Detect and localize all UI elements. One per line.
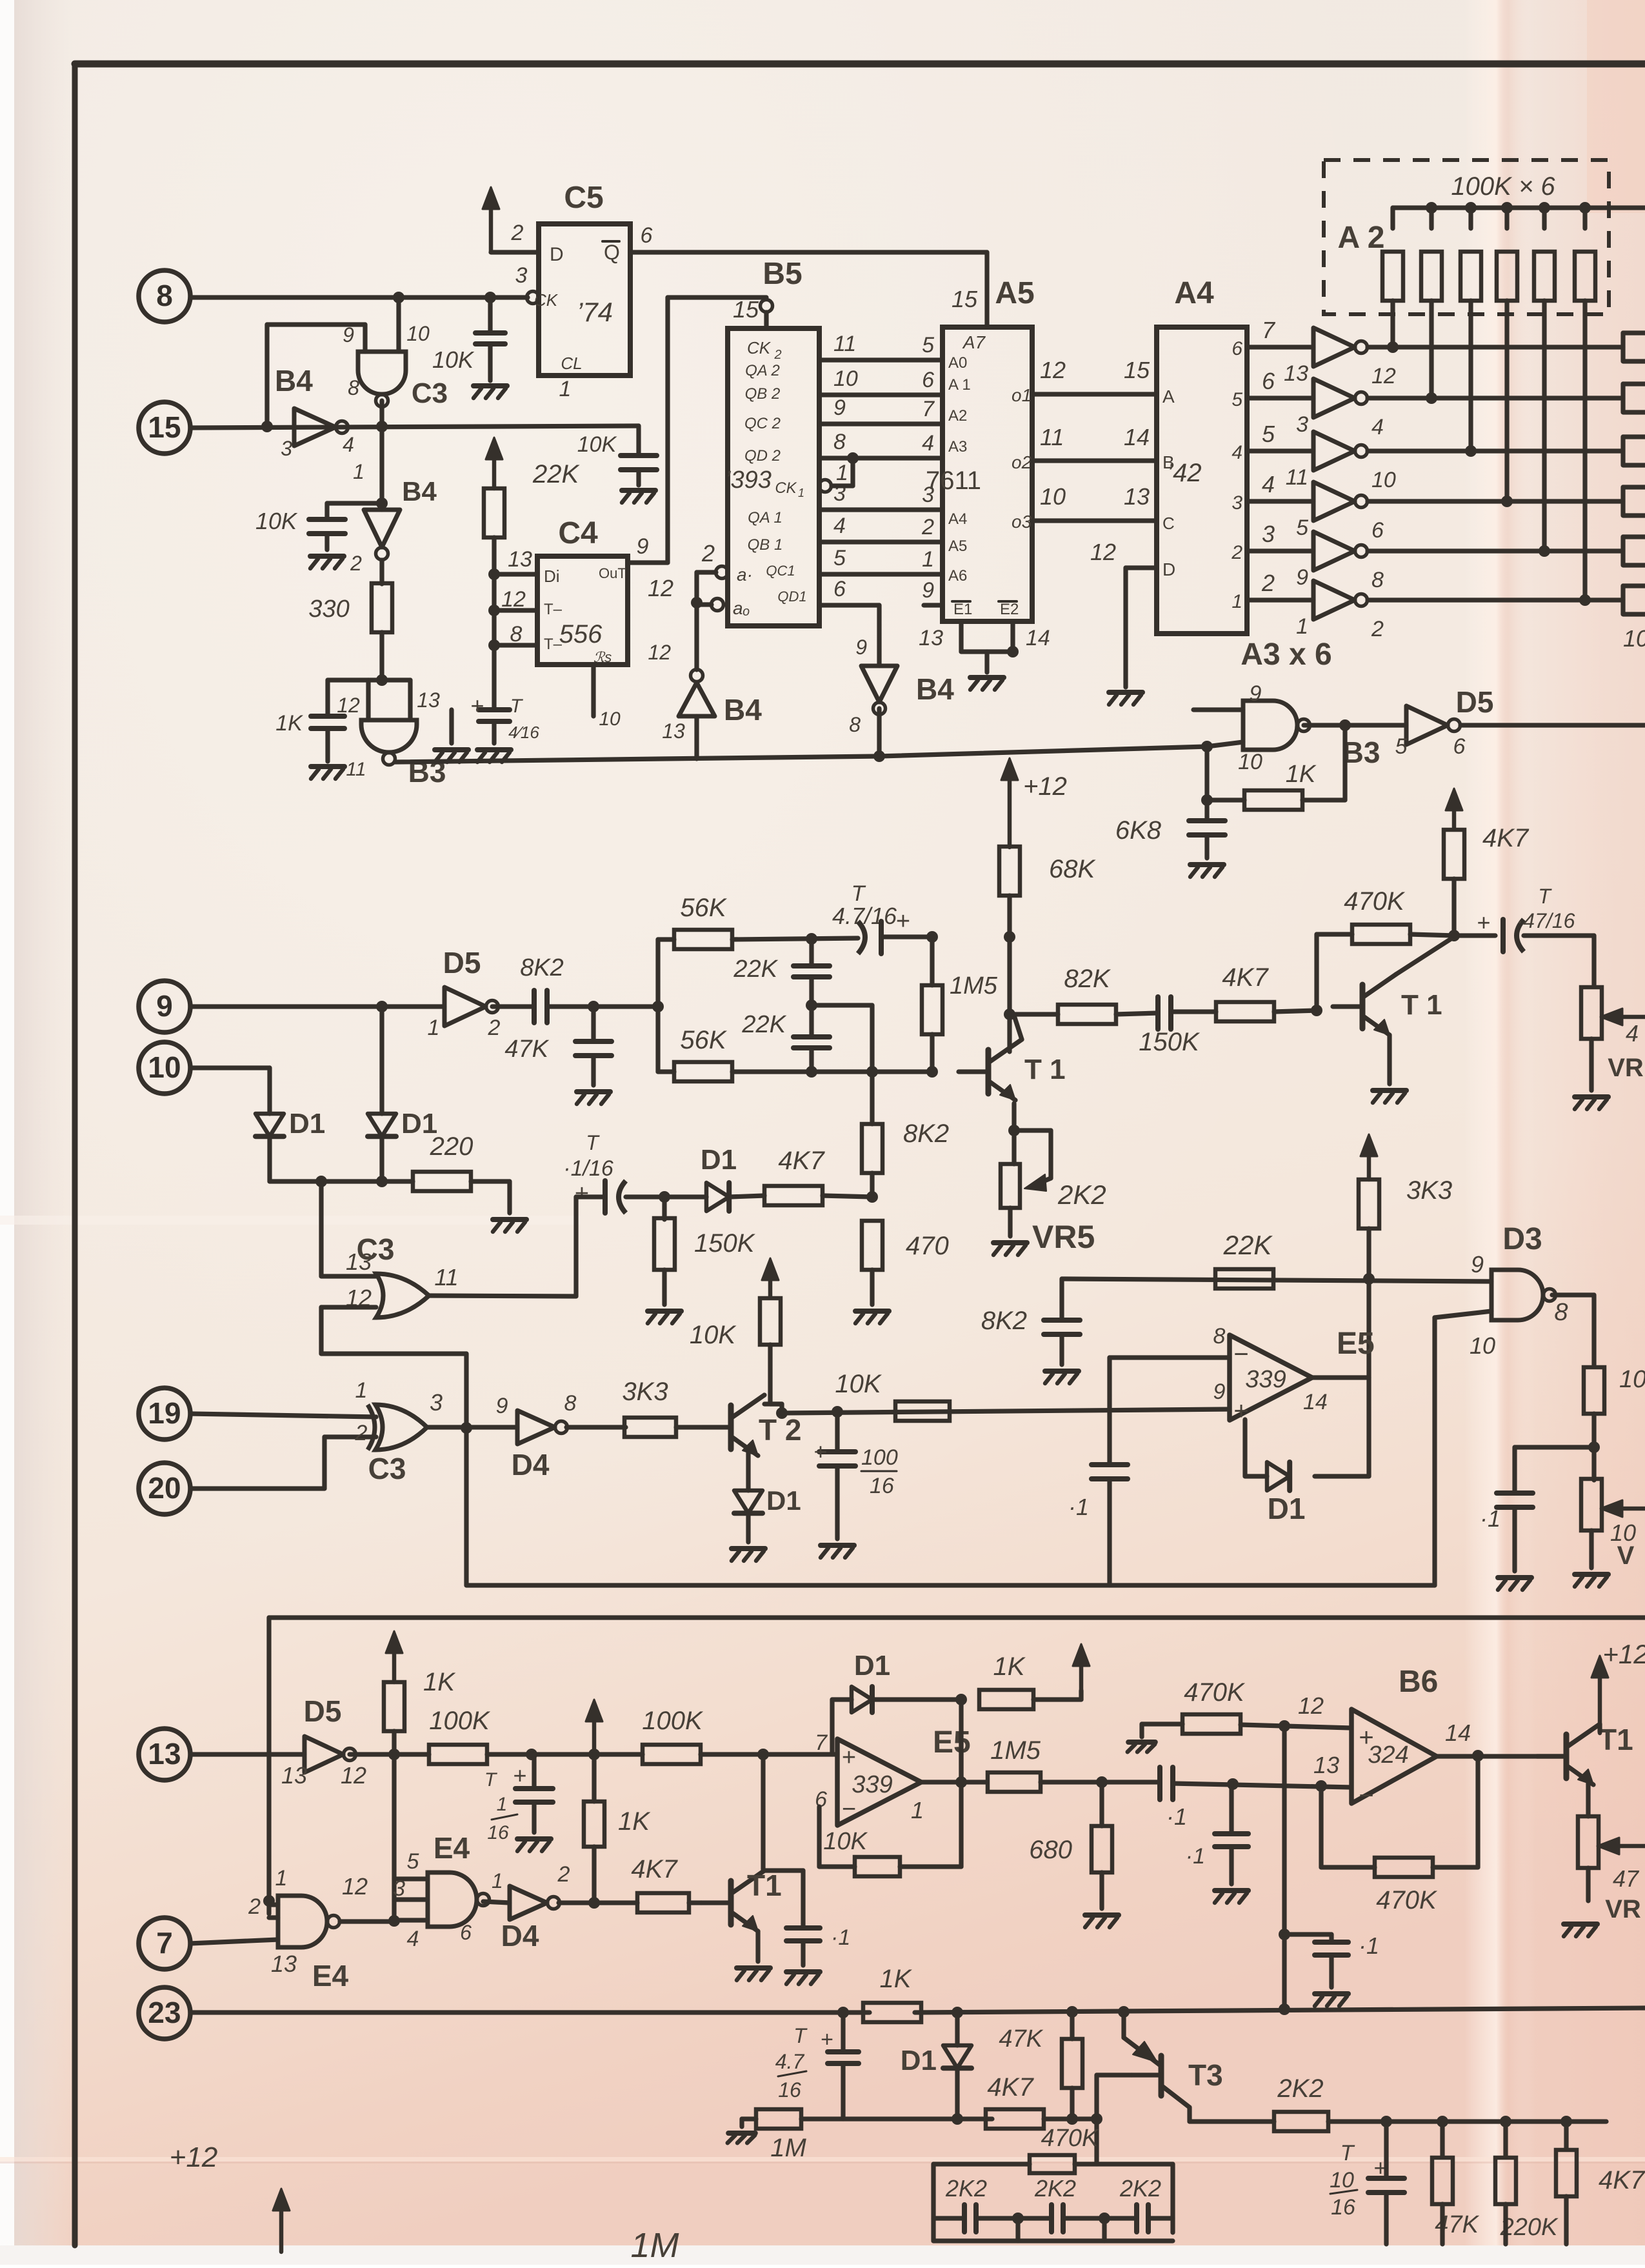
svg-text:9: 9	[343, 323, 354, 346]
NAND gate E4 first (pins 1,2,13,12)	[263, 1895, 275, 1907]
terminal 7	[139, 1918, 190, 1969]
ground stub C4 TR	[449, 710, 454, 743]
inverter D5 bottom (pins 13,12)	[304, 1736, 343, 1772]
inverter A3-5	[1313, 532, 1355, 570]
wire B5 QD1 pin 6 to inverter B4	[819, 603, 879, 607]
svg-text:11: 11	[1040, 424, 1064, 450]
wire E5 output to 22K node	[1312, 1375, 1369, 1380]
svg-text:5: 5	[922, 333, 934, 357]
op-amp B6 (324)	[1351, 1709, 1437, 1803]
wire T1 right emitter to ground	[1387, 1035, 1391, 1084]
svg-text:E2: E2	[1000, 601, 1019, 618]
svg-text:1M5: 1M5	[990, 1736, 1041, 1765]
svg-text:D5: D5	[1456, 685, 1494, 719]
terminal 13	[139, 1729, 190, 1780]
svg-text:470K: 470K	[1376, 1886, 1438, 1914]
diode D1 horizontal	[706, 1183, 729, 1211]
svg-text:D5: D5	[304, 1694, 342, 1728]
wire net-10 to D1	[190, 1065, 270, 1070]
svg-text:2K2: 2K2	[1057, 1179, 1106, 1210]
svg-text:8: 8	[849, 713, 861, 736]
svg-text:QB 1: QB 1	[748, 536, 783, 554]
wire D5 output to right edge	[1461, 723, 1645, 727]
svg-text:D4: D4	[501, 1919, 539, 1952]
resistor 3K3	[624, 1418, 676, 1437]
resistor 100K second	[643, 1745, 701, 1764]
svg-text:3: 3	[281, 437, 292, 460]
svg-text:A 1: A 1	[948, 376, 971, 394]
wire T3 emitter to 2K2 row	[1187, 2107, 1191, 2122]
svg-text:B4: B4	[402, 476, 437, 507]
resistor 3K3 vertical	[1359, 1179, 1379, 1229]
svg-text:10K: 10K	[1619, 1366, 1645, 1393]
svg-text:·1: ·1	[1166, 1803, 1187, 1830]
svg-text:E4: E4	[434, 1831, 470, 1865]
svg-text:8: 8	[156, 279, 173, 312]
svg-text:T3: T3	[1188, 2058, 1223, 2092]
wire from row 1831 down to gate C3	[319, 1181, 323, 1276]
bottom section top wire	[269, 1615, 1645, 1620]
svg-text:3K3: 3K3	[1406, 1176, 1452, 1205]
power arrow +12 above 4K7	[1452, 800, 1457, 828]
capacitor 10K at C5 CK node	[488, 297, 492, 333]
svg-text:470K: 470K	[1041, 2125, 1099, 2152]
svg-text:Q: Q	[604, 241, 620, 264]
power arrow above 10K vertical	[768, 1270, 773, 1297]
svg-text:15: 15	[952, 286, 978, 312]
long wire bottom of section 2	[466, 1583, 1435, 1587]
wire C3 upper output	[429, 1296, 576, 1296]
svg-text:VR5: VR5	[1032, 1219, 1095, 1255]
svg-text:3: 3	[1262, 521, 1275, 547]
svg-text:82K: 82K	[1064, 965, 1111, 993]
capacitor .1 at D3 divider	[1515, 1445, 1594, 1449]
svg-text:6: 6	[922, 368, 934, 392]
power arrow +12 above 68K	[1008, 770, 1012, 847]
wire 22K to C4 pins	[492, 537, 496, 710]
wire T1 bottom collector up	[763, 1869, 764, 1871]
svg-text:10K: 10K	[690, 1321, 737, 1349]
svg-text:·47/16: ·47/16	[1517, 909, 1575, 932]
svg-text:3: 3	[430, 1389, 443, 1416]
svg-text:1K: 1K	[275, 711, 303, 736]
svg-text:8: 8	[564, 1391, 577, 1416]
ground under A5	[970, 675, 1004, 680]
svg-text:10K: 10K	[835, 1370, 882, 1398]
svg-text:C5: C5	[564, 181, 603, 215]
capacitor T .47/16 polarized	[1454, 933, 1495, 938]
svg-text:A7: A7	[962, 332, 986, 352]
capacitor 6K8 at B3 input	[1204, 747, 1209, 821]
svg-text:A 2: A 2	[1338, 221, 1385, 255]
svg-text:5: 5	[1231, 389, 1242, 410]
svg-text:1: 1	[836, 461, 848, 485]
svg-text:C3: C3	[412, 377, 448, 409]
resistor 10K vertical	[760, 1298, 781, 1345]
svg-text:4K7: 4K7	[1599, 2166, 1645, 2194]
terminal 15	[139, 402, 190, 454]
svg-text:20: 20	[148, 1471, 181, 1505]
svg-text:2: 2	[921, 515, 934, 539]
resistor 100K first	[429, 1745, 487, 1764]
svg-text:·1: ·1	[1480, 1505, 1500, 1532]
svg-text:47: 47	[1613, 1865, 1640, 1892]
svg-text:14: 14	[1124, 424, 1150, 450]
resistor 220K bottom vertical	[1503, 2122, 1508, 2156]
svg-text:o3: o3	[1012, 512, 1032, 532]
capacitor 22K upper in twin-T	[806, 933, 817, 945]
resistor 1M5	[930, 937, 934, 985]
capacitor 10K at inverter B4 input	[327, 501, 382, 505]
inverter B4 mid (pins 12,13) pointing up	[694, 603, 699, 670]
ground under C4 bus cap	[477, 747, 511, 752]
ground under T1 bottom	[737, 1965, 770, 1971]
ground stub 1M	[739, 2119, 744, 2127]
twin-T filter left node	[655, 939, 660, 1072]
svg-text:5: 5	[1262, 421, 1275, 447]
svg-text:o1: o1	[1012, 385, 1032, 405]
svg-text:13: 13	[1124, 483, 1150, 510]
svg-text:12: 12	[1371, 364, 1396, 388]
svg-text:·1: ·1	[831, 1925, 850, 1950]
edge connector stub row 2	[1623, 381, 1645, 386]
ground under 100/16	[821, 1543, 854, 1548]
wire C4 OUT pin 9 up to B5 CK2	[628, 560, 668, 565]
capacitor 8K2 series	[492, 1004, 534, 1009]
wire C4 Rs pin down	[591, 665, 595, 716]
svg-text:T: T	[793, 2024, 808, 2047]
resistor 47K vertical	[1070, 2012, 1074, 2039]
svg-text:680: 680	[1029, 1836, 1072, 1864]
svg-text:+12: +12	[1023, 772, 1067, 801]
svg-text:+: +	[842, 1744, 856, 1771]
wire T1 collector to 82K row	[1014, 1016, 1022, 1039]
resistor 8K2 on T1 base divider	[866, 1066, 878, 1078]
inverter A3-1	[1313, 328, 1355, 366]
svg-text:E4: E4	[312, 1959, 349, 1992]
svg-text:6: 6	[641, 223, 653, 248]
svg-text:339: 339	[852, 1771, 892, 1798]
capacitor .1 at B6 loop	[1284, 1932, 1331, 1936]
svg-text:B3: B3	[1342, 736, 1381, 769]
svg-text:’42: ’42	[1167, 459, 1201, 487]
inverter A3-4	[1313, 482, 1355, 521]
wire net-23 long row	[190, 2010, 870, 2014]
resistor 2K2	[1274, 2112, 1328, 2131]
ground under 680	[1085, 1912, 1119, 1918]
potentiometer VR4	[1581, 987, 1602, 1039]
svg-text:14: 14	[1026, 626, 1050, 650]
svg-text:+: +	[896, 908, 910, 935]
wires A5 outputs to A4 inputs	[1032, 392, 1157, 396]
resistor 470K feedback	[1314, 934, 1319, 1010]
svg-text:15: 15	[148, 410, 181, 444]
svg-text:13: 13	[508, 547, 532, 572]
A4 pin D 12 ground stub	[1126, 565, 1157, 570]
resistor A2-5 100K	[1539, 202, 1550, 214]
svg-text:D1: D1	[854, 1650, 890, 1681]
svg-text:12: 12	[341, 1762, 366, 1789]
ground under T1 cap	[786, 1969, 820, 1974]
svg-text:11: 11	[833, 332, 856, 356]
capacitor .1 under minus input	[1107, 1358, 1112, 1465]
svg-text:D1: D1	[901, 2045, 937, 2076]
wire net-13	[190, 1752, 304, 1756]
svg-text:1: 1	[492, 1869, 503, 1892]
wire A3-6 output to edge connector	[1368, 597, 1623, 602]
svg-text:9: 9	[922, 578, 934, 603]
svg-text:470K: 470K	[1344, 887, 1406, 916]
wire C5 Q-bar pin 6 to A5 pin 15	[630, 250, 987, 254]
resistor 1K on net-23	[863, 2003, 921, 2022]
ground under 1K cap	[311, 764, 344, 769]
svg-text:B4: B4	[275, 364, 313, 397]
wire long row to NAND B3 inputs	[879, 747, 1207, 756]
OR gate C3 upper (pins 13,12,11)	[376, 1274, 429, 1318]
svg-text:8: 8	[1554, 1299, 1568, 1326]
svg-text:10: 10	[1623, 625, 1645, 652]
ground under 10K cap 2	[310, 554, 344, 559]
svg-text:4: 4	[922, 431, 934, 456]
XOR gate C3 lower (pins 1,2,3)	[375, 1405, 427, 1450]
wire net-8 to C5 CK	[190, 295, 528, 299]
svg-text:1K: 1K	[423, 1668, 456, 1696]
svg-text:13: 13	[1284, 361, 1308, 386]
inverter A3-6	[1313, 581, 1355, 619]
resistor 47K bottom vertical	[1440, 2122, 1444, 2156]
ground under 10K cap	[474, 383, 507, 388]
wire D4 to 4K7	[559, 1900, 637, 1905]
svg-text:12: 12	[337, 694, 360, 717]
diode D1 below net-23	[955, 2012, 959, 2045]
svg-text:A3 x 6: A3 x 6	[1241, 637, 1331, 672]
resistor 22K above C4	[492, 449, 497, 488]
bubble C5 CK input pin 3	[527, 292, 539, 304]
svg-text:3: 3	[515, 263, 528, 288]
svg-text:4: 4	[343, 433, 354, 456]
svg-text:A4: A4	[948, 510, 967, 528]
svg-text:470K: 470K	[1184, 1678, 1246, 1707]
inverter D5 (pins 5,6)	[1406, 706, 1448, 745]
svg-text:100K: 100K	[429, 1707, 491, 1735]
svg-text:10: 10	[1371, 468, 1396, 492]
svg-text:220K: 220K	[1500, 2214, 1559, 2241]
resistor 4K7 bottom right	[1564, 2122, 1568, 2149]
svg-text:16: 16	[487, 1822, 509, 1843]
power arrow +12 at T1 right	[1597, 1724, 1602, 1732]
svg-text:100: 100	[861, 1445, 898, 1470]
inverter D4 (pins 9,8)	[517, 1410, 555, 1444]
svg-text:2: 2	[248, 1894, 261, 1919]
transistor T1 left emitter wire	[1012, 1103, 1016, 1164]
wire T2 collector row to E5	[782, 1409, 1230, 1413]
inverter D5 on net-9 (pins 1,2)	[444, 987, 486, 1026]
svg-text:23: 23	[148, 1996, 181, 2029]
svg-text:QC 2: QC 2	[744, 415, 781, 432]
svg-text:12: 12	[648, 575, 673, 601]
transistor T2	[728, 1405, 734, 1449]
ground under net-15 cap	[622, 488, 655, 493]
svg-text:VR: VR	[1605, 1895, 1641, 1923]
resistor 470K top B6	[1142, 1721, 1182, 1726]
potentiometer VR5 2K2 wiper loop	[1014, 1128, 1051, 1132]
svg-text:E5: E5	[933, 1725, 971, 1760]
svg-text:2: 2	[1231, 542, 1242, 563]
svg-text:56K: 56K	[680, 894, 727, 922]
resistor A2-1 100K	[1390, 208, 1395, 228]
svg-text:8: 8	[510, 622, 523, 647]
B5 input bubbles a1 a2	[716, 567, 728, 579]
svg-text:2: 2	[773, 348, 781, 362]
transistor T3	[1159, 2056, 1164, 2096]
svg-text:10: 10	[406, 322, 430, 345]
wire E5 minus input	[1110, 1355, 1230, 1360]
wire D4 to 3K3	[566, 1425, 626, 1429]
svg-text:4: 4	[1626, 1020, 1639, 1047]
diode D1 second vertical	[379, 1007, 384, 1114]
resistor 22K feedback E5	[1215, 1269, 1273, 1289]
svg-text:11: 11	[346, 759, 366, 780]
svg-text:56K: 56K	[680, 1026, 727, 1054]
wire to VR4 pot	[1591, 936, 1596, 986]
wire B3 output to D5	[1304, 723, 1406, 727]
svg-text:100K: 100K	[642, 1707, 704, 1735]
svg-text:2: 2	[557, 1862, 570, 1887]
power arrow above 1K	[392, 1643, 397, 1682]
decoder A4 ('42)	[1157, 327, 1247, 634]
wire cap left down to C3 output	[573, 1197, 578, 1296]
decoder A5 (7611)	[942, 327, 1032, 621]
wire net-15	[190, 426, 639, 428]
capacitor 100/16 polarized	[832, 1406, 843, 1418]
wire T1 bottom emitter ground	[755, 1931, 760, 1962]
wire net-7 to E4	[190, 1940, 278, 1943]
potentiometer VR5 2K2	[1001, 1164, 1020, 1208]
svg-text:B4: B4	[916, 672, 954, 706]
svg-text:12: 12	[501, 587, 526, 612]
edge connector stub row 3	[1623, 434, 1645, 439]
svg-text:14: 14	[1303, 1390, 1328, 1414]
svg-text:9: 9	[1296, 565, 1308, 590]
svg-text:o2: o2	[1012, 452, 1032, 472]
svg-text:2: 2	[488, 1016, 501, 1040]
power arrow at 1K output	[1079, 1691, 1083, 1700]
ground under 470	[855, 1309, 889, 1314]
ground under VR5	[993, 1240, 1027, 1245]
svg-text:12: 12	[648, 641, 671, 664]
svg-text:T: T	[510, 696, 524, 717]
svg-text:6: 6	[1453, 734, 1466, 759]
ground under A4 pin D	[1109, 690, 1142, 695]
resistor 4K7 row 3284	[742, 2116, 756, 2121]
svg-text:2: 2	[511, 221, 524, 245]
svg-text:13: 13	[417, 688, 440, 712]
resistor 1K at E5 output	[979, 1690, 1033, 1709]
svg-text:8K2: 8K2	[903, 1119, 949, 1148]
svg-text:4.7: 4.7	[775, 2050, 805, 2073]
svg-text:A3: A3	[948, 438, 967, 456]
wire E5 output row	[922, 1780, 987, 1784]
capacitor 1K at B3 input	[311, 714, 344, 719]
svg-text:A2: A2	[948, 407, 967, 425]
wire B6 output to T1	[1437, 1754, 1563, 1758]
svg-text:10: 10	[1330, 2168, 1354, 2193]
svg-text:10: 10	[599, 708, 621, 730]
svg-text:11: 11	[434, 1264, 458, 1290]
svg-text:10: 10	[1470, 1332, 1495, 1359]
svg-text:1: 1	[497, 1794, 508, 1815]
terminal 8	[139, 270, 190, 322]
svg-text:6: 6	[460, 1921, 472, 1944]
svg-text:15: 15	[733, 296, 759, 323]
svg-text:16: 16	[1331, 2195, 1355, 2220]
capacitor .1 series bottom	[1157, 1767, 1162, 1800]
svg-text:13: 13	[281, 1762, 307, 1789]
svg-text:A5: A5	[948, 537, 967, 555]
svg-text:1: 1	[353, 460, 364, 483]
svg-text:8: 8	[348, 376, 359, 399]
power arrow above 3K3 vertical	[1367, 1146, 1371, 1179]
svg-text:2K2: 2K2	[1277, 2074, 1323, 2103]
svg-text:T 1: T 1	[1401, 989, 1442, 1021]
ground stub 470K	[1139, 1724, 1144, 1737]
svg-text:13: 13	[271, 1951, 297, 1977]
svg-text:B4: B4	[724, 693, 762, 727]
svg-text:6: 6	[1262, 368, 1275, 394]
inverter B4 (pin 1,2) pointing down	[364, 510, 400, 547]
svg-text:B6: B6	[1399, 1665, 1438, 1699]
wire net-20	[190, 1486, 324, 1490]
ground under B6 .1 cap	[1315, 1991, 1348, 1996]
svg-text:220: 220	[430, 1132, 474, 1161]
svg-text:556: 556	[559, 620, 603, 648]
svg-text:5: 5	[1395, 734, 1408, 759]
svg-text:C3: C3	[368, 1452, 406, 1485]
svg-text:9: 9	[156, 989, 173, 1023]
svg-text:D3: D3	[1502, 1222, 1542, 1256]
diode D1 feedback under E5	[1366, 1378, 1371, 1476]
svg-text:QC1: QC1	[766, 563, 795, 579]
wire NAND B4 input 10 from net-8	[396, 297, 401, 352]
svg-text:CL: CL	[561, 354, 582, 373]
svg-text:−: −	[1233, 1340, 1248, 1369]
capacitor 8K2 at 22K left	[1059, 1279, 1064, 1320]
svg-text:D1: D1	[289, 1108, 325, 1139]
svg-text:1K: 1K	[1286, 761, 1317, 788]
svg-text:+: +	[813, 1438, 827, 1465]
svg-text:8K2: 8K2	[520, 954, 564, 981]
svg-text:47K: 47K	[999, 2025, 1043, 2052]
svg-text:T 1: T 1	[1024, 1054, 1066, 1085]
ground under 47K cap	[577, 1089, 610, 1094]
wire 1K node down to E4 pins	[392, 1754, 396, 1922]
op-amp E5 (339) section 2	[1230, 1335, 1312, 1420]
capacitor 150K series	[1155, 997, 1161, 1029]
svg-text:15: 15	[1124, 357, 1150, 383]
svg-text:4⁄16: 4⁄16	[508, 723, 539, 742]
svg-text:6: 6	[1371, 518, 1384, 543]
svg-text:10: 10	[833, 366, 858, 391]
ground under .1	[1215, 1888, 1248, 1893]
wire C3 lower output to D4	[427, 1425, 517, 1429]
svg-text:+12: +12	[170, 2142, 218, 2173]
diode D1 left vertical	[255, 1114, 284, 1136]
svg-text:T1: T1	[1599, 1723, 1633, 1756]
wire A3-1 output to edge connector	[1368, 345, 1623, 349]
resistor A2-3 100K	[1465, 202, 1477, 214]
resistor A2-2 100K	[1426, 202, 1437, 214]
B5 CK1 bubble pin 1 loop	[819, 480, 832, 492]
